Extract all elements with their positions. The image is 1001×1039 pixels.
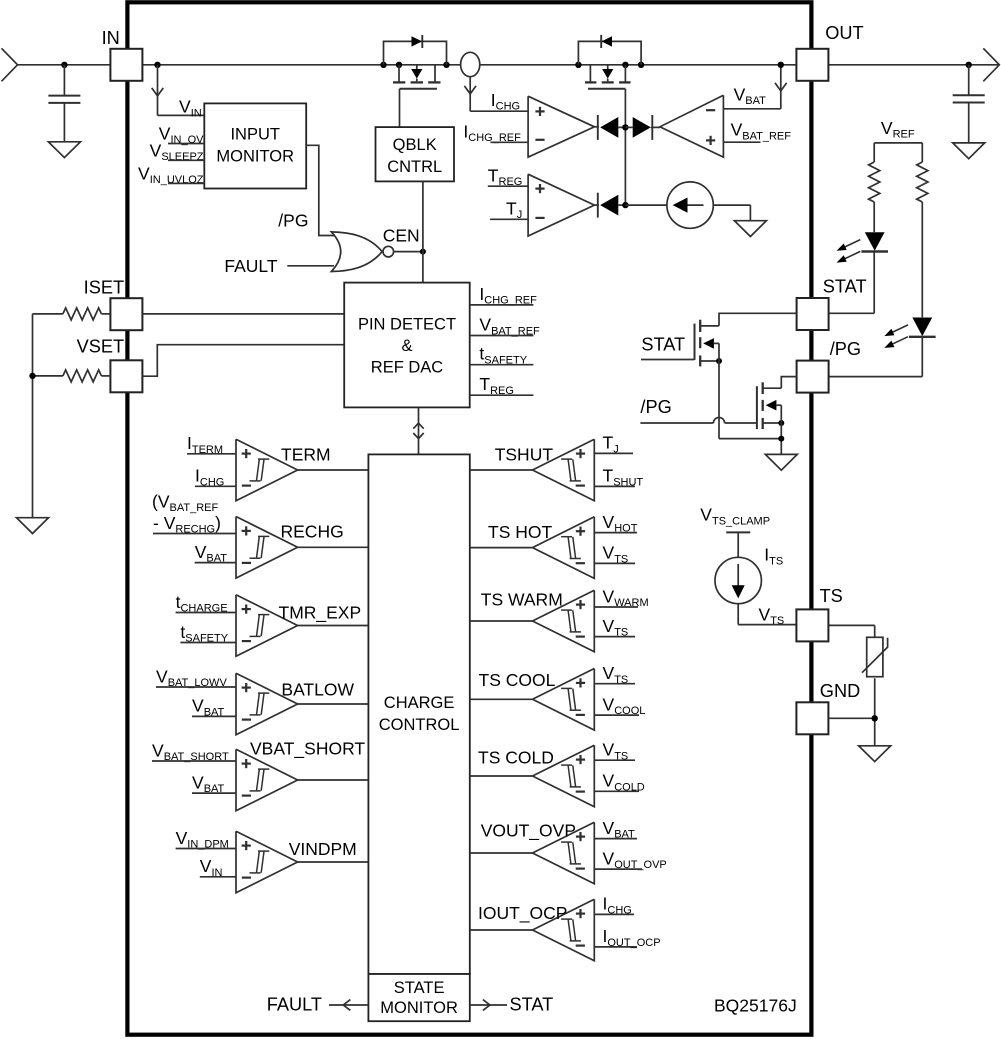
wire U20 TSHUT output <box>470 469 533 471</box>
comparator U22 TS WARM <box>533 590 595 652</box>
comparator U1 (ICHG) <box>528 96 594 157</box>
wire VIN tap with arrow <box>157 65 159 116</box>
diode D4 (U2 output) <box>625 126 632 128</box>
block PIN DETECT & REF DAC <box>344 283 470 408</box>
svg-text:BATLOW: BATLOW <box>281 679 354 699</box>
svg-text:ICHG: ICHG <box>491 90 520 113</box>
transistor Q4 (/PG FET) <box>756 386 758 429</box>
svg-text:STAT: STAT <box>641 335 685 355</box>
svg-text:STAT: STAT <box>510 995 554 1015</box>
svg-text:- VRECHG): - VRECHG) <box>153 513 221 536</box>
svg-text:VBAT: VBAT <box>734 84 767 107</box>
svg-text:IN: IN <box>102 28 120 48</box>
node VSET rail junction <box>29 373 35 379</box>
node thermistor-GND junction <box>872 715 878 721</box>
svg-text:/PG: /PG <box>640 397 671 417</box>
svg-text:tCHARGE: tCHARGE <box>176 592 228 615</box>
svg-text:ITERM: ITERM <box>187 433 223 456</box>
wire Q1 gate to QBLK <box>399 89 401 127</box>
svg-text:VREF: VREF <box>881 118 915 141</box>
LED D7 (/PG) <box>912 318 932 337</box>
U3 plus <box>535 188 544 190</box>
wire U11 RECHG output <box>298 546 369 548</box>
svg-text:ISET: ISET <box>84 277 124 297</box>
svg-text:VWARM: VWARM <box>603 586 649 609</box>
transistor Q1 (QBLK FET) <box>398 65 400 82</box>
svg-text:(VBAT_REF: (VBAT_REF <box>152 491 218 514</box>
wire Q4 gate lead with hop <box>640 422 713 424</box>
wire R1 to LED1 <box>873 202 875 232</box>
wire /PG from INPUT MONITOR <box>306 145 334 235</box>
wire thermistor to ground <box>874 678 876 746</box>
svg-text:VBAT: VBAT <box>192 772 225 795</box>
resistor R3 (ISET) <box>33 313 63 315</box>
wire Q4 drain to /PG pin <box>781 377 796 389</box>
wire U12 TMR_EXP output <box>298 625 369 627</box>
comparator U24 TS COLD <box>533 745 595 807</box>
svg-text:ICHG: ICHG <box>195 466 224 489</box>
thermistor RT <box>867 637 883 676</box>
comparator U25 VOUT_OVP <box>533 822 595 884</box>
svg-text:VTS: VTS <box>759 604 785 627</box>
svg-text:IOUT_OCP: IOUT_OCP <box>478 903 567 924</box>
svg-text:VBAT_LOWV: VBAT_LOWV <box>156 666 227 689</box>
svg-text:CHARGE: CHARGE <box>384 694 455 712</box>
wire U22 TS WARM output <box>470 620 533 622</box>
wire FAULT to gate <box>287 265 334 267</box>
diode D1 (Q1 body) <box>384 41 447 64</box>
svg-text:CONTROL: CONTROL <box>379 716 460 734</box>
block STATE MONITOR <box>368 974 469 1021</box>
wire U3 output <box>594 204 599 206</box>
pin ISET box <box>110 298 142 330</box>
wire U21 TS HOT output <box>470 547 533 549</box>
comparator U15 VINDPM <box>236 831 298 893</box>
wire Q4 source lead <box>763 422 782 424</box>
wire ICHG sense tap with arrow <box>469 77 471 112</box>
svg-text:VTS_CLAMP: VTS_CLAMP <box>700 505 770 528</box>
svg-text:VCOOL: VCOOL <box>603 694 646 717</box>
node Q2 left junction <box>575 62 581 68</box>
node Q2 body junction <box>622 62 628 68</box>
resistor R2 (/PG LED) <box>917 162 928 202</box>
wire IN rail <box>18 64 111 66</box>
wire LED1 to STAT pin <box>873 252 875 314</box>
svg-text:OUT: OUT <box>825 23 863 43</box>
wire U2 - lead <box>723 108 780 110</box>
svg-text:TMR_EXP: TMR_EXP <box>279 602 362 623</box>
svg-text:STAT: STAT <box>823 277 867 297</box>
svg-text:VTS: VTS <box>603 543 629 566</box>
svg-text:tSAFETY: tSAFETY <box>180 622 228 645</box>
svg-text:CNTRL: CNTRL <box>387 158 442 176</box>
svg-text:MONITOR: MONITOR <box>380 999 458 1017</box>
pin /PG box <box>797 361 829 393</box>
block QBLK CNTRL <box>376 127 455 181</box>
resistor R1 (STAT LED) <box>869 162 880 202</box>
wire VBAT tap with arrow <box>780 65 782 109</box>
current sensor ellipse <box>461 52 480 76</box>
diode D2 (Q2 body) <box>578 41 641 64</box>
svg-text:TJ: TJ <box>506 198 522 221</box>
svg-text:TJ: TJ <box>603 433 619 456</box>
svg-text:VBAT_SHORT: VBAT_SHORT <box>152 740 229 763</box>
pin OUT box <box>796 49 828 81</box>
svg-text:REF DAC: REF DAC <box>371 359 444 377</box>
svg-text:VBAT: VBAT <box>192 696 225 719</box>
node Q2 right junction <box>638 62 644 68</box>
svg-text:VTS: VTS <box>603 663 629 686</box>
svg-text:VOUT_OVP: VOUT_OVP <box>481 821 576 842</box>
comparator U14 VBAT_SHORT <box>236 749 298 811</box>
comparator U23 TS COOL <box>533 669 595 731</box>
wire U25 VOUT_OVP output <box>470 852 533 854</box>
U1 plus <box>535 110 544 112</box>
block INPUT MONITOR <box>204 103 306 188</box>
svg-text:VIN_DPM: VIN_DPM <box>176 828 229 851</box>
resistor R4 (VSET) <box>33 375 63 377</box>
transistor Q2 (battery FET) <box>589 65 591 82</box>
svg-text:VCOLD: VCOLD <box>603 771 645 794</box>
svg-text:TS HOT: TS HOT <box>488 522 552 542</box>
svg-text:IOUT_OCP: IOUT_OCP <box>603 926 661 949</box>
pin GND box <box>796 702 828 734</box>
output arrow chevron <box>983 48 999 81</box>
comparator U3 (TREG) <box>528 174 594 236</box>
svg-text:TSHUT: TSHUT <box>495 445 554 465</box>
comparator U13 BATLOW <box>236 673 298 735</box>
wire U15 VINDPM output <box>298 861 369 863</box>
svg-text:CEN: CEN <box>383 226 420 246</box>
wire VSET to PIN DETECT <box>142 345 344 377</box>
wire U1 output <box>594 126 599 128</box>
capacitor C1 (input) <box>63 65 65 96</box>
U2 minus <box>706 109 715 111</box>
svg-text:ICHG_REF: ICHG_REF <box>463 121 521 144</box>
wire OUT rail <box>828 64 998 66</box>
svg-text:VBAT: VBAT <box>603 818 636 841</box>
svg-text:QBLK: QBLK <box>393 136 437 154</box>
wire VREF bar <box>874 142 922 144</box>
svg-text:/PG: /PG <box>830 339 861 359</box>
svg-text:/PG: /PG <box>278 211 308 231</box>
ground (GND pin) <box>859 746 891 762</box>
wire Q3 source lead <box>700 360 719 362</box>
comparator U20 TSHUT <box>533 439 595 501</box>
block CHARGE CONTROL <box>368 454 469 974</box>
wire VTS_CLAMP bar <box>726 531 750 533</box>
svg-text:VBAT_REF: VBAT_REF <box>479 315 540 338</box>
wire LED2 to /PG pin <box>921 337 923 377</box>
pin VSET box <box>110 360 142 392</box>
wire Q4 body down <box>780 405 782 454</box>
svg-text:INPUT: INPUT <box>230 126 280 144</box>
svg-text:TREG: TREG <box>479 374 514 397</box>
wire Q3 source down <box>718 343 720 438</box>
svg-text:VOUT_OVP: VOUT_OVP <box>603 848 667 871</box>
node Q1 drain junction <box>380 62 386 68</box>
comparator U12 TMR_EXP <box>236 595 298 657</box>
svg-text:VTS: VTS <box>603 740 629 763</box>
wire GND pin to thermistor node <box>828 717 874 719</box>
node Q1 source-stub junction <box>396 62 402 68</box>
svg-text:STATE: STATE <box>394 979 445 997</box>
node Q3 source junction <box>716 358 722 364</box>
ground (ISET/VSET) <box>17 518 49 534</box>
svg-text:VBAT_REF: VBAT_REF <box>731 120 792 143</box>
svg-text:FAULT: FAULT <box>224 256 277 276</box>
wire TS to thermistor <box>828 624 874 626</box>
wire I2 to TS pin <box>737 604 739 625</box>
wire I1 to ground <box>713 204 750 206</box>
capacitor C2 (output) <box>968 65 970 95</box>
ground (input cap) <box>48 142 80 158</box>
svg-text:ICHG_REF: ICHG_REF <box>479 284 537 307</box>
svg-text:tSAFETY: tSAFETY <box>479 344 527 367</box>
node CEN junction <box>420 249 426 255</box>
gate NOR U5 <box>331 232 382 272</box>
comparator U21 TS HOT <box>533 517 595 579</box>
comparator U26 IOUT_OCP <box>533 899 595 961</box>
wire U14 VBAT_SHORT output <box>298 779 369 781</box>
current source I2 (ITS) <box>715 557 761 603</box>
current source I1 (TREG clamp) <box>667 182 713 228</box>
diode D5 (U3 output) <box>597 193 599 218</box>
svg-text:TS COOL: TS COOL <box>479 670 556 690</box>
svg-text:VHOT: VHOT <box>603 512 638 535</box>
node VIN tap junction <box>154 62 160 68</box>
wire ISET to PIN DETECT <box>142 313 344 315</box>
U2 plus <box>706 139 715 141</box>
ground (I1) <box>734 221 766 237</box>
wire Q3 gate lead <box>641 359 695 361</box>
node VBAT tap junction <box>778 62 784 68</box>
U3 minus <box>535 217 544 219</box>
svg-text:GND: GND <box>820 681 860 701</box>
comparator U2 (VBAT) <box>660 95 724 157</box>
svg-text:TERM: TERM <box>281 444 331 464</box>
svg-text:VTS: VTS <box>603 616 629 639</box>
svg-text:VINDPM: VINDPM <box>289 839 357 859</box>
ground (output cap) <box>953 143 985 159</box>
wire U13 BATLOW output <box>298 703 369 705</box>
wire to current source <box>625 204 667 206</box>
LED D6 (STAT) <box>865 232 885 251</box>
node diode junction B <box>622 202 628 208</box>
svg-text:VIN: VIN <box>200 856 223 879</box>
wire QBLK to CEN to PIN DETECT <box>422 181 424 282</box>
transistor Q3 (STAT FET) <box>694 324 696 360</box>
svg-text:TS: TS <box>820 586 843 606</box>
svg-text:TREG: TREG <box>488 165 523 188</box>
wire U23 TS COOL output <box>470 698 533 700</box>
svg-text:ICHG: ICHG <box>603 894 632 917</box>
wire ISET/VSET ground rail <box>32 314 34 518</box>
ground (Q3/Q4) <box>765 454 797 470</box>
pin TS box <box>796 609 828 641</box>
node input cap junction <box>61 62 67 68</box>
node Q1 right junction <box>443 62 449 68</box>
node diode junction A <box>622 124 628 130</box>
svg-text:VIN: VIN <box>179 97 202 120</box>
wire U24 TS COLD output <box>470 775 533 777</box>
svg-text:ITS: ITS <box>764 545 783 568</box>
svg-text:&: & <box>401 337 412 355</box>
node Q4 source junction <box>778 420 784 426</box>
wire U10 TERM output <box>298 469 369 471</box>
comparator U11 RECHG <box>236 517 298 579</box>
node output cap junction <box>966 62 972 68</box>
U1 minus <box>535 139 544 141</box>
wire VBUS rail inside IC <box>142 64 796 66</box>
svg-text:VSET: VSET <box>77 337 125 357</box>
node Q3-Q4 ground junction <box>778 436 784 442</box>
svg-text:FAULT: FAULT <box>267 995 322 1015</box>
svg-text:RECHG: RECHG <box>281 522 344 542</box>
svg-text:MONITOR: MONITOR <box>216 148 294 166</box>
pin STAT box <box>797 298 829 330</box>
wire PIN DETECT to CHARGE CONTROL bidirectional <box>418 407 420 454</box>
wire R2 to LED2 <box>921 202 923 317</box>
wire Q3 drain to STAT pin <box>719 313 797 326</box>
svg-text:TS COLD: TS COLD <box>478 748 554 768</box>
diode D3 (U1 output) <box>597 115 599 140</box>
svg-text:PIN DETECT: PIN DETECT <box>358 316 456 334</box>
svg-text:TSHUT: TSHUT <box>603 466 644 489</box>
svg-text:VBAT_SHORT: VBAT_SHORT <box>250 739 365 760</box>
input arrow chevron <box>2 48 18 81</box>
pin IN box <box>110 49 142 81</box>
comparator U10 TERM <box>236 439 298 501</box>
IC boundary box BQ25176J <box>127 2 811 1034</box>
wire CEN <box>394 251 423 253</box>
svg-text:BQ25176J: BQ25176J <box>714 996 797 1016</box>
wire U26 IOUT_OCP output <box>470 929 533 931</box>
svg-text:TS WARM: TS WARM <box>481 590 563 610</box>
svg-text:VBAT: VBAT <box>195 542 228 565</box>
wire Q2 gate to diode node <box>624 89 626 205</box>
